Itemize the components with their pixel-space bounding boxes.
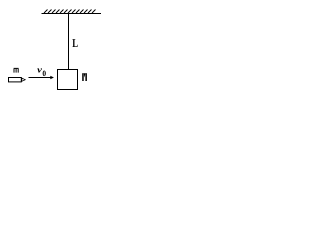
string (wire): [68, 14, 70, 70]
block M (square): [58, 70, 78, 90]
ceiling line: [42, 13, 102, 15]
velocity arrowhead: [50, 76, 54, 79]
bullet m (projectile outline): [9, 78, 22, 82]
label m: [14, 68, 19, 72]
svg-text:L: L: [72, 36, 78, 50]
label M: [82, 73, 87, 81]
svg-text:0: 0: [42, 69, 46, 78]
ceiling hatching: [44, 10, 96, 14]
velocity arrow shaft: [29, 77, 52, 79]
